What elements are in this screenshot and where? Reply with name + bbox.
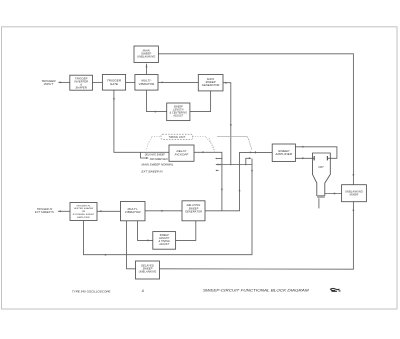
arrow switch down bbox=[221, 189, 223, 192]
wire ext trigger input bbox=[58, 210, 70, 212]
wire multivib2 to sweep timing box bbox=[138, 221, 153, 241]
wire crt base stub bbox=[318, 198, 320, 208]
box main sweep unblanking bbox=[134, 46, 158, 63]
dashed timing link left bbox=[146, 137, 161, 151]
arrow msg down bbox=[230, 124, 232, 127]
wire multivibrator up to unblanking bbox=[146, 64, 148, 74]
box multivibrator bbox=[135, 75, 158, 91]
crt envelope bbox=[313, 153, 331, 196]
arrow mixer riser up bbox=[352, 208, 354, 211]
box unblanking mixer bbox=[342, 185, 367, 202]
box sweep amplifier bbox=[272, 144, 295, 162]
svg-text:MAIN SWEEP DEL'D: MAIN SWEEP DEL'D bbox=[150, 158, 168, 161]
arrow ext trig input bbox=[60, 210, 63, 212]
arrow row left end bbox=[216, 164, 219, 166]
wire sweep length box to generator bottom bbox=[190, 91, 211, 112]
wire trigger gate to multivibrator bbox=[126, 81, 135, 83]
wire multivibrator to main sweep generator bbox=[158, 81, 198, 83]
arrow length box in bbox=[155, 111, 158, 113]
arrow timing box in bbox=[147, 239, 150, 241]
dashed timing link diagonal right bbox=[248, 137, 253, 150]
box delayed sweep unblanking bbox=[136, 261, 160, 279]
svg-text:MAIN SWEEP NORMAL: MAIN SWEEP NORMAL bbox=[142, 164, 175, 167]
svg-text:SWEEP-CIRCUIT FUNCTIONAL BLOCK: SWEEP-CIRCUIT FUNCTIONAL BLOCK DIAGRAM bbox=[203, 288, 309, 293]
crt left plate bbox=[313, 156, 315, 160]
svg-text:TIMING UNIT: TIMING UNIT bbox=[168, 135, 185, 139]
box trigger inverter ext sweep amplifier bbox=[70, 203, 97, 221]
arrow ext riser up bbox=[251, 169, 253, 172]
wire trigger gate down to delay line bbox=[114, 90, 169, 152]
arrow trigger gate down bbox=[113, 98, 115, 101]
arrow down unblank feed bbox=[352, 174, 354, 177]
arrow multivib out bbox=[162, 81, 165, 83]
junction dot row b bbox=[230, 164, 232, 166]
wire sweep amp upper output bbox=[295, 147, 337, 159]
stamp mark bbox=[330, 288, 341, 291]
wire inverter to trigger gate bbox=[93, 81, 103, 83]
wire unblanking feed right and down bbox=[158, 54, 353, 185]
contact tick sweep amp line bbox=[254, 151, 256, 153]
box trigger gate bbox=[102, 75, 125, 91]
wire sweep amp lower output bbox=[295, 157, 314, 159]
svg-text:DELAYING SWEEP: DELAYING SWEEP bbox=[145, 154, 165, 157]
wire sweep timing box return bbox=[176, 221, 196, 241]
svg-text:TYPE 545 OSCILLOSCOPE: TYPE 545 OSCILLOSCOPE bbox=[72, 289, 111, 293]
arrow amp lower out bbox=[302, 157, 305, 159]
wire multivib2 to delaying sweep generator bbox=[145, 210, 182, 212]
arrow hook tip bbox=[249, 157, 252, 159]
wire switch hook contact bbox=[246, 158, 250, 164]
crt right plate bbox=[326, 156, 328, 160]
wire mixer to crt grid bbox=[325, 193, 342, 195]
svg-text:CRT: CRT bbox=[318, 165, 324, 169]
crt base band bbox=[317, 195, 325, 198]
contact dot left upper bbox=[216, 158, 217, 159]
box sweep length timing adjust bbox=[153, 232, 176, 250]
wire delay pickoff to switch bbox=[194, 152, 222, 211]
contact dot left lower bbox=[216, 170, 217, 171]
arrow to sweep amp bbox=[250, 151, 253, 153]
box sweep length centering adjust bbox=[167, 103, 190, 121]
svg-text:TRIGGER INEXT SWEEP IN: TRIGGER INEXT SWEEP IN bbox=[35, 208, 54, 214]
junction dot row d bbox=[245, 164, 247, 166]
box timing unit dashed bbox=[161, 134, 193, 139]
wire ext amp to multivib2 bbox=[97, 210, 121, 212]
dashed wiper one bbox=[209, 138, 215, 152]
arrow ext amp out bbox=[100, 210, 103, 212]
junction dot row c bbox=[239, 164, 241, 166]
wire delayed unblanking output bbox=[160, 202, 354, 270]
wire multivib2 to delayed unblanking bbox=[127, 221, 136, 269]
arrow amp upper out bbox=[302, 146, 305, 148]
svg-text:EXT SWEEP IN: EXT SWEEP IN bbox=[142, 171, 163, 174]
arrow pickoff branch bbox=[146, 157, 149, 159]
arrow dsg riser up bbox=[239, 189, 241, 192]
junction dot row a bbox=[219, 164, 221, 166]
contact stub row left bbox=[216, 158, 222, 160]
arrow trigger input bbox=[60, 81, 63, 83]
svg-text:DELAYPICKOFF: DELAYPICKOFF bbox=[175, 149, 189, 156]
contact stub row lower bbox=[216, 169, 218, 171]
arrow multivib2 out bbox=[161, 210, 164, 212]
box delay pickoff bbox=[169, 145, 194, 161]
arrow ext line right bbox=[105, 254, 108, 256]
wire switch row bbox=[216, 164, 252, 166]
arrow pickoff out bbox=[202, 151, 205, 153]
svg-text:SWEEPLENGTH& TIMINGADJUST: SWEEPLENGTH& TIMINGADJUST bbox=[158, 234, 170, 246]
box multivibrator two bbox=[121, 202, 146, 221]
wire delayed pickoff branch bbox=[141, 152, 147, 158]
dashed timing link right bbox=[193, 137, 215, 152]
dashed wiper two bbox=[248, 139, 252, 151]
box trigger inverter shaper bbox=[70, 75, 93, 90]
wire main sweep generator output down bbox=[223, 83, 231, 165]
arrow mixer to crt bbox=[333, 193, 336, 195]
arrow up into unblanking bbox=[146, 65, 148, 68]
svg-text:A: A bbox=[141, 289, 144, 293]
svg-text:TRIGGERINVERTER&SHAPER: TRIGGERINVERTER&SHAPER bbox=[74, 76, 88, 89]
wire trigger input to inverter bbox=[58, 81, 69, 83]
box delaying sweep generator bbox=[182, 201, 205, 221]
arrow msg out bbox=[225, 82, 228, 84]
box main sweep generator bbox=[198, 75, 223, 91]
timing link long thin line bbox=[217, 136, 248, 138]
wire delaying sweep generator output bbox=[205, 152, 272, 210]
wire multivibrator down to sweep length box bbox=[147, 90, 167, 111]
wire ext sweep riser bbox=[84, 159, 253, 255]
